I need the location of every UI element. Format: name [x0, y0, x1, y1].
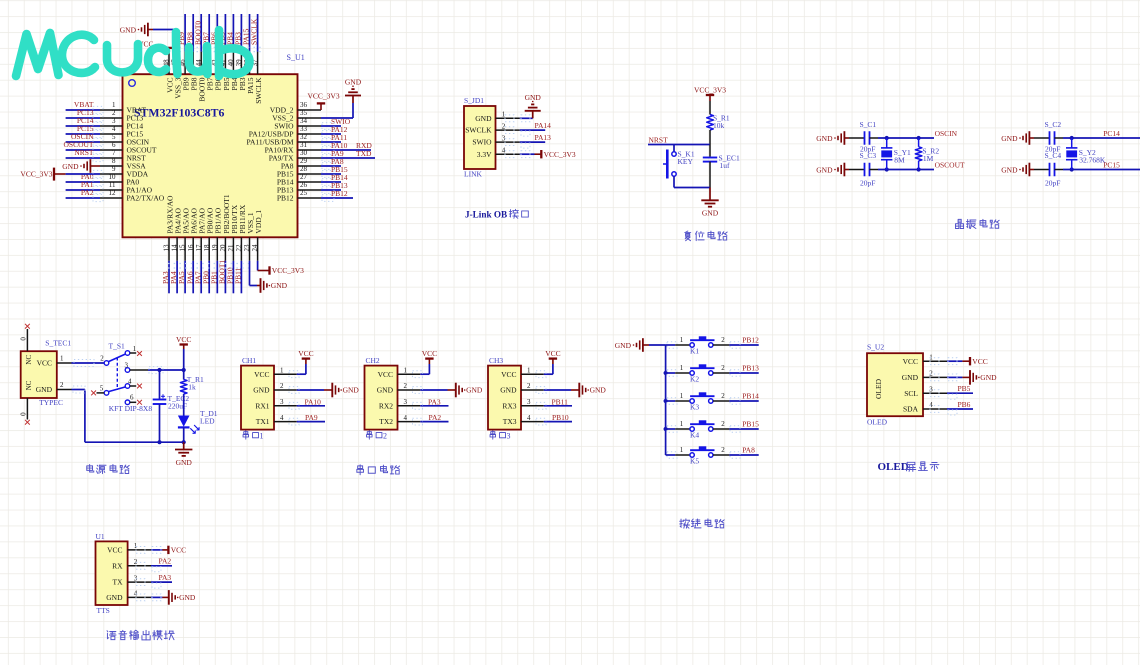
junction nodes at crystal S_Y2 [1070, 136, 1074, 172]
S_U1 pin 3 PC14 (left) [100, 117, 143, 131]
svg-text:K1: K1 [690, 347, 699, 356]
svg-text:VCC: VCC [501, 370, 516, 379]
ground GND at CH2 pin 2 [448, 383, 483, 398]
wire S_TEC1 VCC to switch T_S1 [72, 360, 105, 367]
logo MCUclub [16, 30, 250, 76]
wire bus to K2 [666, 370, 677, 376]
svg-text:2: 2 [280, 382, 284, 390]
svg-text:S_C1: S_C1 [860, 120, 877, 129]
wire CH1 pin 1 to power [289, 364, 306, 378]
S_U1 pin 37 SWCLK (top) [251, 52, 263, 104]
svg-text:5: 5 [112, 133, 116, 141]
power VCC at U1 pin 1 [162, 546, 186, 555]
wire CH2 pin 2 to ground [413, 387, 448, 394]
display S_U2 designator [867, 343, 884, 352]
label chuankou 2 under CH2 [367, 431, 387, 441]
svg-text:1: 1 [527, 366, 531, 374]
ground GND at CH3 pin 2 [571, 383, 606, 398]
svg-text:PB13: PB13 [742, 363, 759, 372]
svg-text:4: 4 [128, 377, 132, 385]
svg-text:PB5: PB5 [958, 384, 971, 393]
svg-text:29: 29 [300, 157, 308, 165]
svg-text:GND: GND [816, 134, 833, 143]
svg-text:TXD: TXD [356, 149, 372, 158]
svg-text:1: 1 [680, 446, 684, 454]
power VCC_3V3 at S_U1 pin 36 [308, 92, 340, 110]
svg-text:OLED: OLED [874, 378, 883, 399]
MCU S_U1 designator [287, 53, 305, 62]
capacitor S_C2 20pF [1034, 120, 1063, 154]
svg-text:PA2/TX/AO: PA2/TX/AO [127, 194, 165, 203]
junction nodes at crystal S_Y1 [885, 136, 889, 172]
svg-text:PB12: PB12 [277, 194, 294, 203]
connector S_JD1 designator [464, 96, 484, 105]
S_U1 pin 4 PC15 (left) [100, 125, 143, 139]
svg-text:SCL: SCL [904, 389, 918, 398]
switch T_S1 mechanical link (dashed) [116, 358, 118, 391]
power VCC at CH3 pin 1 [545, 349, 560, 364]
wire and net label PB15 at K4 [729, 419, 759, 432]
svg-text:VCC: VCC [176, 335, 191, 344]
connector S_TEC1 designator [45, 338, 71, 347]
wire and net label PA11 at S_U1 pin 32 [321, 133, 347, 146]
wire and net label PB6 at S_U1 pin 42 (top) [209, 14, 218, 52]
svg-text:VDD_1: VDD_1 [254, 210, 263, 234]
S_U1 pin 34 SWIO (right) [274, 117, 321, 131]
svg-text:PA8: PA8 [742, 445, 755, 454]
wire and net label PA14 at S_JD1 pin 2 [505, 121, 551, 136]
svg-text:28: 28 [300, 165, 308, 173]
svg-text:PB14: PB14 [742, 391, 759, 400]
svg-text:K3: K3 [690, 403, 699, 412]
capacitor S_C3 20pF [849, 151, 878, 188]
svg-text:3.3V: 3.3V [477, 150, 492, 159]
wire and net label PA15 at S_U1 pin 38 (top) [242, 14, 251, 52]
svg-text:16: 16 [187, 244, 195, 252]
S_U1 pin 8 VSSA (left) [100, 157, 146, 171]
ground GND at S_C1 [816, 131, 849, 145]
wire and net label PA10 at S_U1 pin 31 [321, 141, 348, 154]
wire and net label PB8 at S_U1 pin 45 (top) [185, 14, 194, 52]
svg-text:S_JD1: S_JD1 [464, 96, 484, 105]
svg-text:VCC: VCC [107, 546, 122, 555]
wire VCC to resistor S_R1 [709, 101, 711, 115]
svg-text:SWCLK: SWCLK [465, 126, 492, 135]
connector CH2 body [365, 366, 398, 430]
wire and net label PA2 at S_U1 pin 12 [66, 188, 103, 201]
S_JD1 pin 2 SWCLK [465, 122, 520, 134]
svg-text:36: 36 [300, 101, 308, 109]
wire and net label PC13 at S_U1 pin 2 [66, 108, 103, 121]
wire and net label SWCLK at S_U1 pin 37 (top) [250, 14, 259, 52]
svg-text:14: 14 [171, 244, 179, 252]
svg-text:S_C4: S_C4 [1045, 151, 1062, 160]
svg-text:17: 17 [195, 244, 203, 252]
wire VCC to resistor T_R1 [182, 349, 186, 380]
svg-text:SWIO: SWIO [472, 138, 492, 147]
S_U1 pin 18 PB0/AO (bottom) [203, 207, 215, 261]
CH1 pin 2 GND [253, 382, 297, 394]
svg-text:SDA: SDA [903, 405, 919, 414]
S_U1 pin 22 PB11/RX (bottom) [235, 204, 247, 261]
wire S_R1 to NRST node [709, 130, 711, 145]
svg-text:18: 18 [203, 244, 211, 252]
dotted marks below MCU bottom pins [168, 264, 252, 269]
svg-text:K2: K2 [690, 375, 699, 384]
svg-text:GND: GND [253, 386, 270, 395]
svg-text:GND: GND [345, 78, 362, 87]
S_U1 pin 16 PA6/AO (bottom) [187, 207, 199, 260]
svg-text:26: 26 [300, 181, 308, 189]
wire bus to K4 [666, 426, 677, 432]
wire and net label PB10 at S_U1 pin 21 (bottom) [226, 261, 235, 294]
wire and net label BOOT0 at S_U1 pin 44 (top) [193, 14, 202, 52]
CH1 pin 3 RX1 [255, 398, 296, 410]
svg-text:PB15: PB15 [742, 419, 759, 428]
svg-text:VCC_3V3: VCC_3V3 [272, 266, 304, 275]
switch T_S1 pole 2-1 [100, 345, 142, 365]
svg-text:33: 33 [300, 125, 308, 133]
wire and net label PB13 at K2 [729, 363, 759, 376]
module U1 designator [96, 532, 105, 541]
svg-text:1: 1 [133, 345, 137, 353]
svg-text:VCC: VCC [545, 349, 560, 358]
svg-text:PA10: PA10 [305, 397, 322, 406]
svg-text:PA2: PA2 [429, 413, 442, 422]
svg-text:2: 2 [721, 446, 725, 454]
svg-text:NC: NC [25, 380, 33, 390]
wire and net label PC14 at S_U1 pin 3 [66, 116, 103, 129]
wire ground to key bus [649, 344, 666, 346]
wire capacitor to ground node [709, 162, 711, 188]
svg-text:GND: GND [179, 593, 196, 602]
push button K2 [675, 364, 729, 384]
net label OSCIN [935, 129, 958, 138]
svg-text:23: 23 [243, 244, 251, 252]
caption anjian dianlu (key circuit) [680, 519, 724, 528]
S_U1 pin 31 PA10/RX (right) [265, 141, 321, 155]
crystal S_Y2 32.768K [1066, 138, 1106, 170]
connector S_JD1 LINK body [464, 106, 496, 178]
net label OSCOUT [935, 161, 965, 170]
svg-text:1uf: 1uf [720, 161, 731, 170]
svg-text:LINK: LINK [464, 169, 482, 178]
S_U1 pin 38 PA15 (top) [243, 52, 255, 94]
wire and net label PB14 at S_U1 pin 27 [321, 173, 348, 186]
svg-text:S_C3: S_C3 [860, 151, 877, 160]
switch T_S1 contact 3 wire to VCC node [125, 361, 184, 373]
ground GND at CH1 pin 2 [324, 383, 359, 398]
capacitor S_C1 20pF [849, 120, 878, 154]
resistor S_R1 10k [707, 113, 730, 130]
svg-text:2: 2 [383, 432, 387, 441]
ground GND at S_U1 pin 8 [62, 159, 100, 173]
S_U1 pin 48 VCC (top) [163, 52, 175, 93]
svg-text:VCC: VCC [298, 349, 313, 358]
svg-text:PA14: PA14 [535, 121, 552, 130]
S_U1 pin 40 PB4 (top) [227, 52, 239, 91]
wire and net label PA3 at U1 pin 3 [136, 573, 172, 588]
connector CH3 designator [489, 356, 503, 365]
svg-text:TX: TX [113, 578, 124, 587]
svg-text:GND: GND [500, 386, 517, 395]
svg-text:VCC: VCC [903, 357, 918, 366]
svg-text:32.768K: 32.768K [1079, 156, 1106, 165]
junction nodes at resistor S_R2 [917, 136, 921, 172]
svg-text:GND: GND [702, 209, 719, 218]
S_U1 pin 10 PA0 (left) [100, 173, 139, 187]
module U1 TTS body [96, 541, 128, 615]
S_U2 pin 4 SDA [903, 401, 947, 413]
S_U1 pin 42 PB6 (top) [211, 52, 223, 91]
svg-text:VCC_3V3: VCC_3V3 [694, 85, 726, 94]
wire NRST node down to capacitor [709, 145, 711, 157]
CH3 pin 1 VCC [501, 366, 544, 378]
S_U1 pin 26 PB13 (right) [277, 181, 321, 195]
svg-text:6: 6 [112, 141, 116, 149]
wire and net label PB10 at CH3 pin 4 [536, 413, 572, 425]
wire S_U1 pin 24 VDD_1 to power [257, 261, 259, 271]
svg-text:LED: LED [200, 417, 215, 426]
svg-text:GND: GND [377, 386, 394, 395]
wire OSC row2 (PC15) [1063, 169, 1140, 171]
svg-text:GND: GND [343, 386, 360, 395]
wire and net label BOOT1 at S_U1 pin 20 (bottom) [218, 260, 227, 294]
wire and net label PA12 at S_U1 pin 33 [321, 125, 348, 138]
S_U1 pin 35 VSS_2 (right) [272, 109, 321, 123]
wire and net label PA4 at S_U1 pin 14 (bottom) [169, 261, 178, 294]
ground GND at S_JD1 pin 1 [525, 93, 542, 119]
CH1 pin 4 TX1 [256, 414, 297, 426]
ground GND at S_U2 pin 2 [962, 370, 997, 385]
caption jingzhen dianlu (crystal circuit) [956, 219, 1000, 228]
CH2 pin 2 GND [377, 382, 421, 394]
svg-text:3: 3 [527, 398, 531, 406]
junction node at capacitor T_EC2 [157, 368, 161, 444]
svg-text:VCC: VCC [972, 357, 987, 366]
svg-text:NRST: NRST [649, 135, 669, 144]
S_U1 pin 24 VDD_1 (bottom) [251, 210, 263, 261]
S_U1 pin 15 PA5/AO (bottom) [179, 207, 191, 260]
wire and net label NRST at S_U1 pin 7 [66, 148, 103, 161]
svg-text:K4: K4 [690, 431, 699, 440]
wire capacitor T_EC2 to bottom rail [159, 404, 161, 442]
svg-text:39: 39 [235, 59, 243, 67]
junction node key bus row K2 [664, 371, 668, 375]
svg-text:2: 2 [721, 364, 725, 372]
svg-text:1M: 1M [923, 154, 934, 163]
push button S_K1 KEY [663, 150, 695, 179]
svg-text:S_TEC1: S_TEC1 [45, 338, 71, 347]
S_U1 pin 41 PB5 (top) [219, 52, 231, 91]
svg-text:STM32F103C8T6: STM32F103C8T6 [134, 106, 225, 120]
CH2 pin 4 TX2 [379, 414, 420, 426]
wire and net label PA10 at CH1 pin 3 [289, 397, 325, 409]
svg-text:GND: GND [615, 341, 632, 350]
svg-text:3: 3 [404, 398, 408, 406]
S_U1 pin 9 VDDA (left) [100, 165, 149, 179]
wire CH2 pin 1 to power [413, 364, 430, 378]
svg-text:PB11: PB11 [552, 397, 569, 406]
svg-text:4: 4 [404, 414, 408, 422]
svg-text:3: 3 [125, 361, 129, 369]
wire S_U1 pin 35 to ground [321, 103, 353, 118]
MCU S_U1 body STM32F103C8T6 [123, 74, 298, 237]
connector CH1 body [241, 366, 274, 430]
ground GND power circuit [175, 442, 192, 467]
wire bus to K1 [666, 342, 677, 348]
svg-text:7: 7 [112, 149, 116, 157]
svg-text:4: 4 [527, 414, 531, 422]
svg-text:2: 2 [527, 382, 531, 390]
wire and net label SWIO at S_U1 pin 34 [321, 117, 351, 130]
wire and net label VBAT at S_U1 pin 1 [66, 100, 103, 113]
svg-text:1: 1 [680, 420, 684, 428]
CH2 pin 1 VCC [378, 366, 421, 378]
svg-text:GND: GND [1001, 134, 1018, 143]
power VCC at S_U1 pin 48 (top) [138, 39, 173, 51]
svg-text:S_U1: S_U1 [287, 53, 305, 62]
caption dianyuan dianlu (power circuit) [87, 465, 129, 474]
S_U1 pin 5 OSCIN (left) [100, 133, 150, 147]
label chuankou 1 under CH1 [243, 431, 263, 441]
svg-text:CH1: CH1 [242, 356, 256, 365]
svg-text:VCC_3V3: VCC_3V3 [20, 170, 52, 179]
svg-text:32: 32 [300, 133, 308, 141]
power VCC at CH2 pin 1 [422, 349, 437, 364]
S_TEC1 pin 2 GND [57, 381, 72, 390]
svg-text:GND: GND [62, 162, 79, 171]
svg-text:PA2: PA2 [81, 188, 94, 197]
svg-text:31: 31 [300, 141, 308, 149]
wire and net label PB6 at S_U2 pin 4 [930, 400, 973, 415]
svg-text:TX2: TX2 [379, 417, 393, 426]
wire and net label PB12 at S_U1 pin 25 [321, 189, 353, 202]
wire and net label PB11 at S_U1 pin 22 (bottom) [234, 261, 243, 294]
wire U1 pin 1 to power [136, 547, 162, 554]
wire S_U2 pin 1 to power [930, 358, 962, 365]
svg-text:4: 4 [112, 125, 116, 133]
S_TEC1 bottom shield pin 0 (no connect) [19, 398, 29, 425]
U1 pin 4 GND [106, 590, 151, 602]
svg-text:PA3: PA3 [159, 573, 172, 582]
S_U1 pin 28 PB15 (right) [277, 165, 321, 179]
svg-text:PB11: PB11 [234, 267, 243, 284]
svg-text:K5: K5 [690, 457, 699, 466]
svg-text:S_U2: S_U2 [867, 343, 884, 352]
wire S_K1 to ground node [674, 176, 710, 187]
wire bus to K3 [666, 398, 677, 404]
power VCC power circuit [176, 335, 191, 349]
S_JD1 pin 1 GND [475, 111, 520, 123]
wire and net label PA3 at CH2 pin 3 [413, 397, 449, 409]
wire T_R1 to LED T_D1 [183, 394, 185, 416]
wire and net label PB5 at S_U2 pin 3 [930, 384, 973, 399]
svg-text:VCC: VCC [378, 370, 393, 379]
S_U1 pin 39 PB3 (top) [235, 52, 247, 91]
S_U1 pin 21 PB10/TX (bottom) [227, 204, 239, 261]
svg-text:6: 6 [130, 394, 134, 402]
svg-text:KFT DIP-8X8: KFT DIP-8X8 [109, 404, 153, 413]
wire NRST to key S_K1 [673, 145, 675, 152]
wire and net label PB1 at S_U1 pin 19 (bottom) [209, 261, 218, 294]
ground GND at U1 pin 4 [162, 590, 196, 605]
wire and net label PA8 at K5 [729, 445, 758, 458]
wire and net label PA5 at S_U1 pin 15 (bottom) [177, 261, 186, 294]
svg-text:1: 1 [112, 101, 116, 109]
svg-text:GND: GND [36, 385, 53, 394]
svg-text:GND: GND [1001, 165, 1018, 174]
ground GND at S_C2 [1001, 131, 1034, 145]
wire and net label PA13 at S_JD1 pin 3 [505, 133, 551, 148]
S_U1 pin 29 PA8 (right) [281, 157, 321, 171]
wire S_JD1 pin 1 to ground [505, 115, 533, 122]
extra label RXD on PA10 wire [341, 141, 372, 150]
svg-text:PC14: PC14 [1103, 129, 1120, 138]
svg-text:2: 2 [112, 109, 116, 117]
CH3 pin 4 TX3 [503, 414, 544, 426]
svg-text:RX: RX [112, 561, 123, 570]
svg-text:0: 0 [19, 412, 27, 416]
svg-text:S_C2: S_C2 [1045, 120, 1062, 129]
svg-text:1: 1 [260, 432, 264, 441]
svg-text:3: 3 [280, 398, 284, 406]
svg-text:GND: GND [120, 25, 137, 34]
svg-text:40: 40 [227, 59, 235, 67]
svg-text:OSCIN: OSCIN [935, 129, 958, 138]
dotted marks above MCU top pins [168, 47, 262, 51]
S_U1 pin 2 PC13 (left) [100, 109, 143, 123]
svg-text:PA2: PA2 [159, 557, 172, 566]
svg-text:PB12: PB12 [331, 189, 348, 198]
wire and net label PA2 at U1 pin 2 [136, 557, 172, 572]
wire OSC row2 (OSCOUT) [878, 169, 934, 171]
power VCC_3V3 reset circuit [694, 85, 726, 101]
wire and net label PB12 at K1 [729, 335, 759, 348]
svg-text:OLED: OLED [867, 417, 888, 426]
wire LED to ground rail [182, 427, 186, 444]
wire S_JD1 pin 4 to power [505, 151, 535, 158]
svg-text:OSCOUT: OSCOUT [935, 161, 965, 170]
svg-text:GND: GND [980, 373, 997, 382]
wire and net label PA8 at S_U1 pin 29 [321, 157, 344, 170]
wire and net label OSCOUT at S_U1 pin 6 [63, 140, 103, 153]
wire and net label PA3 at S_U1 pin 13 (bottom) [161, 261, 170, 294]
wire CH3 pin 1 to power [536, 364, 553, 378]
S_U1 pin 47 VSS_3 (top) [171, 52, 183, 99]
wire bus to K5 [666, 452, 677, 458]
resistor S_R2 1M [915, 138, 939, 170]
svg-text:RX3: RX3 [502, 401, 516, 410]
S_U1 pin 13 PA3/RX/AO (bottom) [163, 195, 175, 261]
S_U1 pin 17 PA7/AO (bottom) [195, 207, 207, 260]
connector CH1 designator [242, 356, 256, 365]
svg-text:VCC_3V3: VCC_3V3 [308, 92, 340, 101]
capacitor S_EC1 1uf [703, 153, 740, 170]
crystal S_Y1 8M [881, 138, 911, 170]
S_U2 pin 3 SCL [904, 385, 947, 397]
svg-text:1: 1 [60, 354, 64, 362]
svg-text:TTS: TTS [97, 606, 110, 615]
svg-text:22: 22 [235, 244, 243, 252]
svg-text:2: 2 [721, 420, 725, 428]
svg-text:KEY: KEY [678, 157, 694, 166]
caption OLED ping xianshi [878, 461, 939, 473]
svg-text:RX2: RX2 [379, 401, 393, 410]
S_U1 pin 7 NRST (left) [100, 149, 146, 163]
wire CH1 pin 2 to ground [289, 387, 324, 394]
svg-text:TX1: TX1 [256, 417, 270, 426]
